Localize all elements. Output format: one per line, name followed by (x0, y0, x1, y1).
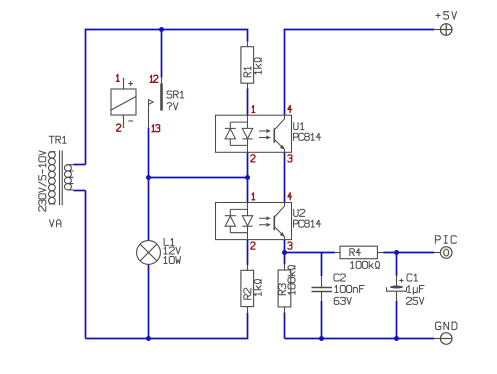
pin stub R3 top (284, 264, 286, 270)
capacitor C2 (312, 288, 333, 292)
U2 pin label 4 (288, 193, 292, 200)
transformer primary pin green dots (49, 151, 51, 153)
wire PIC rail left (285, 252, 335, 254)
U1 pin label 2 (251, 155, 255, 162)
R2 name label (244, 288, 251, 299)
TR1 name label (49, 136, 66, 143)
wire C2 branch bottom (321, 301, 323, 339)
wire PIC rail right (383, 252, 434, 254)
wire plus5V rail (285, 30, 435, 116)
junction middle rail left (146, 175, 151, 180)
C1 name label (407, 274, 418, 281)
wire U1 pin 3 to U2 pin 4 (284, 152, 286, 202)
pin stub R4 right (377, 252, 383, 254)
U1 pin label 4 (288, 106, 292, 113)
wire transformer secondary bottom stub (74, 190, 86, 192)
pin stub R2 top (247, 265, 249, 270)
C1 voltage label 25V (407, 297, 424, 304)
resistor R4 (340, 246, 377, 259)
U2 value label PC814 (294, 220, 321, 227)
optocoupler U2 (216, 203, 292, 240)
wire C2 branch top (321, 253, 323, 277)
R4 name label (350, 249, 361, 256)
U2 pin label 1 (252, 193, 255, 200)
junction middle rail right (245, 175, 250, 180)
wire R3 top (284, 253, 286, 265)
SR1 name label (167, 91, 184, 98)
pin stub R1 bottom (247, 83, 249, 88)
L1 name label (164, 238, 174, 245)
TR1 value label VA (50, 220, 61, 227)
C2 value label 100nF (335, 286, 364, 293)
C1 value label 1uF (408, 286, 425, 295)
wire left vertical lower (85, 191, 87, 339)
terminal GND (440, 333, 452, 345)
U2 pin label 3 (288, 242, 292, 249)
pin label 12 (150, 75, 158, 82)
R4 value label 100k ohm (351, 261, 380, 268)
pin stub SR1 contact top (161, 78, 163, 84)
pin stub C1 top (396, 276, 398, 286)
lamp L1 (137, 241, 161, 265)
pin stub R3 bottom (284, 307, 286, 313)
L1 value label 10W (164, 257, 180, 264)
relay coil SR1 (111, 79, 136, 127)
junction bottom rail lamp (146, 336, 151, 341)
pin stub C2 top (321, 276, 323, 287)
capacitor C1 (390, 286, 403, 289)
wire bottom right rail (285, 338, 435, 340)
wire U1 pin 2 (247, 152, 249, 177)
R2 value label 1k ohm (254, 280, 261, 296)
R3 value label 100k ohm (288, 266, 295, 295)
U2 name label (294, 209, 305, 216)
junction C1 PIC rail (394, 250, 399, 255)
pin stub terminal GND (434, 338, 440, 340)
pin label 13 (152, 125, 160, 132)
junction R3 PIC rail (282, 250, 287, 255)
U1 name label (294, 123, 304, 130)
TR1 rating label 230V/5-10V (39, 151, 46, 212)
junction C2 bottom (319, 336, 324, 341)
pin stub C2 bottom (321, 292, 323, 301)
R1 value label 1k ohm (254, 58, 261, 74)
R1 name label (244, 67, 251, 77)
SR1 reed contact (149, 84, 162, 127)
resistor R2 (241, 270, 254, 306)
junction top rail (159, 27, 164, 32)
coil pin 2 green dot (123, 126, 125, 128)
terminal PIC (440, 247, 452, 259)
optocoupler U1 (216, 115, 292, 152)
pin stub R1 top (247, 42, 249, 47)
wire bottom left rail (86, 313, 248, 339)
wire R3 bottom (284, 313, 286, 339)
pin stub R4 left (335, 252, 340, 254)
U1 value label PC814 (294, 133, 321, 140)
resistor R3 (278, 270, 291, 307)
junction C1 bottom (394, 336, 399, 341)
coil pin 1 green dot (123, 78, 125, 80)
wire SR1 pin 12 (161, 30, 163, 78)
U2 pin label 2 (251, 242, 255, 249)
U1 pin label 3 (288, 155, 292, 162)
pin stub terminal PIC (434, 252, 440, 254)
net label GND (436, 322, 457, 329)
SR1 value label ?V (167, 103, 178, 110)
coil pin label 2 (117, 124, 121, 131)
net label PIC (435, 236, 456, 243)
wire U2 pin 1 (247, 178, 249, 203)
transformer TR1 (49, 151, 74, 206)
wire left vertical and top rail (86, 30, 248, 165)
pin stub C1 bottom (396, 291, 398, 301)
C2 name label (334, 274, 345, 281)
wire C1 branch top (396, 253, 398, 276)
wire transformer secondary top stub (74, 164, 86, 166)
coil pin label 1 (116, 74, 119, 81)
wire U2 pin 3 (284, 240, 286, 253)
wire R1 to U1 pin 1 (247, 88, 249, 115)
pin stub terminal plus5V (434, 29, 440, 31)
pin stub R2 bottom (247, 307, 249, 313)
R3 name label (279, 284, 286, 295)
terminal plus5V (440, 24, 452, 36)
C2 voltage label 63V (334, 297, 351, 304)
resistor R1 (241, 47, 254, 83)
L1 value label 12V (164, 247, 180, 254)
wire C1 branch bottom (396, 301, 398, 339)
U1 pin label 1 (252, 106, 255, 113)
wire middle rail (149, 177, 248, 179)
wire U2 pin 2 to R2 (247, 240, 249, 266)
wire lamp to bottom rail (148, 264, 150, 338)
net label +5V (436, 12, 457, 19)
wire SR1 pin 13 to lamp (148, 128, 150, 241)
